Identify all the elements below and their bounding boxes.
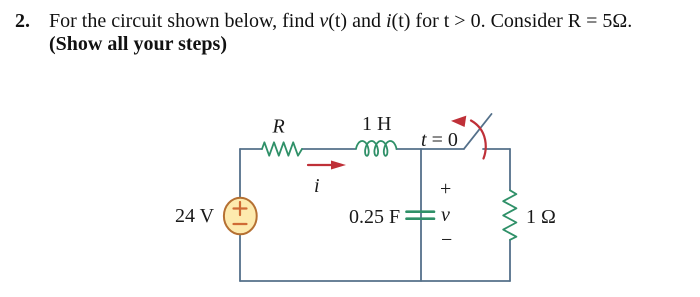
wire: inductor to switch pivot (397, 148, 465, 150)
wire: right vertical top lead (509, 149, 511, 190)
wire: resistor to inductor (302, 148, 355, 150)
svg-text:+: + (440, 178, 451, 200)
resistor R (zigzag) (262, 142, 302, 155)
svg-text:1 H: 1 H (362, 113, 391, 135)
wire: switch right terminal to right corner (483, 148, 510, 150)
wire: bottom (240, 280, 510, 282)
svg-text:i: i (314, 175, 320, 197)
capacitor 0.25F bottom plate (407, 217, 435, 220)
problem heading text (15, 10, 675, 56)
source plus sign (234, 202, 247, 215)
wire: middle vertical branch (node a to bottom) (420, 149, 422, 281)
svg-text:−: − (441, 229, 452, 251)
switch arrow head (451, 116, 466, 127)
inductor L 1H (coil) (356, 141, 397, 156)
switch action arc (red, closing arrow) (471, 121, 486, 159)
svg-text:24 V: 24 V (175, 205, 215, 227)
switch blade (opens at t=0) (464, 114, 492, 149)
svg-text:R: R (272, 116, 285, 138)
svg-text:v: v (441, 204, 450, 226)
wire: right vertical bottom lead (509, 240, 511, 281)
svg-text:1 Ω: 1 Ω (526, 206, 556, 228)
resistor 1 ohm (vertical zigzag) (503, 190, 516, 240)
current arrow head (331, 161, 346, 170)
svg-text:0.25 F: 0.25 F (349, 206, 400, 228)
source minus sign (234, 223, 247, 225)
wire: left vertical branch (239, 149, 241, 281)
wire: top from left corner to resistor (240, 148, 262, 150)
current arrow i (red) (308, 164, 332, 166)
svg-text:t = 0: t = 0 (421, 129, 458, 151)
voltage source 24V (circle) (224, 198, 257, 235)
capacitor 0.25F top plate (407, 210, 435, 213)
